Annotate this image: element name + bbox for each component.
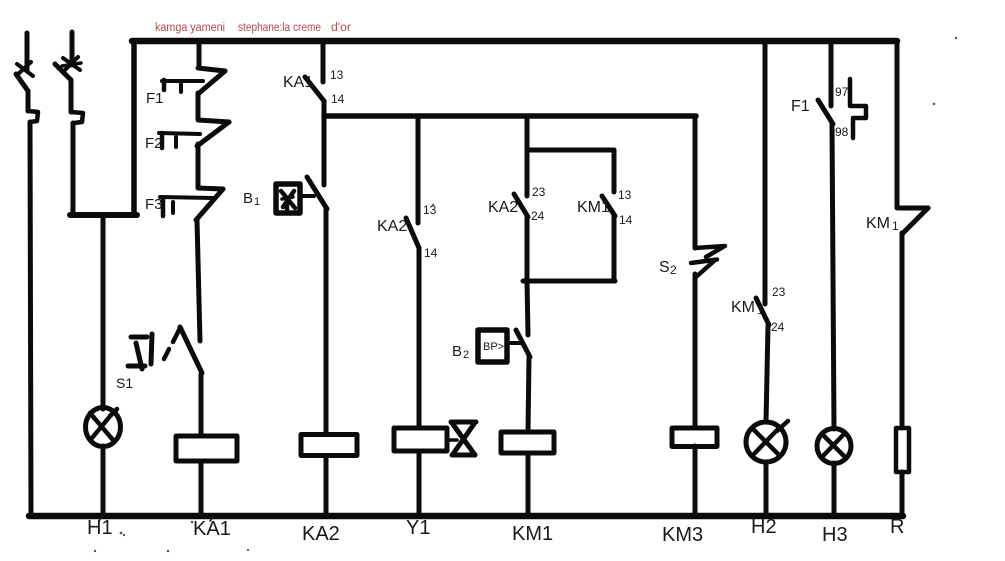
wire: sub-bus down to B1 — [322, 116, 327, 185]
wire: F-chain from top bus — [197, 41, 202, 68]
wire: S2 to coil KM3 — [693, 274, 698, 428]
coil KA2 — [301, 435, 357, 456]
svg-text:S1: S1 — [116, 375, 133, 391]
contact KA1 13/14 — [305, 44, 324, 101]
svg-text:KA1: KA1 — [193, 518, 231, 540]
wire: contact to lamp H2 — [766, 325, 768, 422]
switch S1 — [128, 327, 202, 373]
wire: bottom return bus — [29, 513, 903, 520]
pin 23 — [772, 285, 786, 299]
svg-text:KA2: KA2 — [488, 199, 518, 216]
svg-text:KA2: KA2 — [302, 523, 340, 545]
label KM1 (bottom) — [512, 523, 553, 545]
wire: sub-bus down to parallel pair — [525, 116, 530, 150]
coil KM3 — [672, 428, 717, 447]
label KA2 (bottom) — [302, 523, 340, 545]
wire: F3 down to S1 — [197, 220, 200, 341]
label KA2 — [488, 199, 518, 216]
svg-text:14: 14 — [331, 92, 345, 106]
svg-text:F1: F1 — [791, 98, 810, 115]
svg-text:23: 23 — [532, 185, 546, 199]
label H1 — [87, 516, 113, 539]
lamp H3 — [817, 429, 851, 464]
thermal element of F1 — [850, 79, 866, 138]
svg-text:B: B — [243, 190, 253, 207]
label B2 — [452, 343, 469, 361]
label H3 (bottom) — [822, 524, 848, 546]
svg-text:stephane:la creme: stephane:la creme — [238, 22, 321, 34]
label KM3 (bottom) — [662, 524, 703, 546]
label S1 — [116, 375, 133, 391]
breaker contact F3 — [160, 188, 223, 220]
pin 23 — [532, 185, 546, 199]
svg-text:KM1: KM1 — [512, 523, 553, 545]
svg-text:H3: H3 — [822, 524, 848, 546]
svg-text:KA2: KA2 — [377, 218, 407, 235]
svg-text:F3: F3 — [145, 196, 163, 213]
wire: lamp H3 to bottom bus — [832, 463, 837, 516]
wire: top supply bus — [132, 38, 897, 45]
disconnect switch Q1 pole a — [16, 33, 38, 122]
wire: top bus right elbow down — [895, 41, 900, 208]
pin 98 — [835, 125, 849, 139]
wire — [525, 217, 530, 281]
contact KM1 (right) — [899, 208, 928, 233]
wire: parallel pair bottom bar — [523, 279, 615, 284]
svg-text:d'or: d'or — [331, 22, 351, 34]
svg-text:R: R — [890, 516, 904, 538]
wire: riser to top bus — [131, 41, 137, 215]
pin 14 — [424, 246, 438, 260]
switch S2 — [691, 246, 725, 277]
wire: coil KA2 to bottom bus — [324, 457, 329, 516]
svg-text:2: 2 — [463, 349, 469, 361]
label F1 — [791, 98, 810, 115]
breaker contact F1 — [162, 68, 225, 94]
wire: coil KM3 to bottom bus — [693, 446, 698, 516]
label KM1 — [577, 199, 610, 216]
resistor R — [896, 428, 909, 472]
wire: top bus down to KM1 23/24 — [763, 44, 768, 304]
wire: control sub-bus — [324, 113, 696, 119]
svg-text:1: 1 — [892, 219, 899, 233]
lamp H1 — [86, 408, 121, 447]
label KA1 — [283, 74, 313, 91]
wire: S1 to coil KA1 — [199, 374, 204, 436]
svg-text:Y1: Y1 — [406, 517, 430, 539]
pushbutton B2 — [478, 330, 530, 362]
svg-text:S: S — [659, 259, 670, 276]
label F3 — [145, 196, 163, 213]
svg-text:KM1: KM1 — [577, 199, 610, 216]
svg-text:KM: KM — [866, 215, 890, 232]
coil KA1 — [176, 436, 237, 461]
svg-text:98: 98 — [835, 125, 849, 139]
label BP> — [483, 341, 504, 353]
svg-text:97: 97 — [835, 85, 849, 99]
wire: F1 to lamp H3 — [832, 124, 834, 429]
contact F1 97/98 — [818, 100, 833, 124]
svg-text:14: 14 — [619, 213, 633, 227]
wire: KA1 contact to sub-bus — [322, 101, 327, 116]
wire — [196, 93, 201, 119]
pin 24 — [771, 320, 785, 334]
wire: right pole down to node — [71, 123, 76, 215]
stray pen dots — [94, 37, 957, 552]
valve symbol of Y1 — [447, 422, 476, 455]
label B1 — [243, 190, 260, 208]
wire: lamp H2 to bottom bus — [764, 462, 769, 516]
wire: contact to resistor R — [900, 233, 905, 428]
contact KA2 23/24 — [514, 150, 528, 217]
wire: H1 branch drop — [101, 215, 106, 409]
svg-text:F2: F2 — [145, 135, 163, 152]
pin 13 — [423, 203, 437, 217]
label R (bottom) — [890, 516, 904, 538]
label KA1 (bottom) — [193, 516, 231, 540]
wire: B1 to coil KA2 — [324, 209, 329, 434]
pin 13 — [330, 68, 344, 82]
disconnect switch Q1 pole b — [55, 32, 83, 123]
wire: B2 to coil KM1 — [528, 357, 529, 432]
contact KM1 13/14 — [602, 150, 615, 216]
wire: down to B2 — [527, 281, 528, 335]
svg-text:2: 2 — [670, 263, 677, 277]
label F1 — [146, 90, 164, 107]
label Y1 (bottom) — [406, 517, 430, 539]
wire: resistor to bottom bus — [900, 472, 905, 516]
svg-text:B: B — [452, 343, 462, 360]
label KM1 — [866, 215, 899, 233]
label H2 (bottom) — [751, 516, 777, 538]
svg-text:F1: F1 — [146, 90, 164, 107]
pushbutton B1 — [276, 177, 327, 213]
wire: coil Y1 to bottom bus — [417, 451, 422, 516]
pin 97 — [835, 85, 849, 99]
pin 14 — [619, 213, 633, 227]
svg-text:23: 23 — [772, 285, 786, 299]
label S2 — [659, 259, 677, 277]
wire: left pole down to bottom bus — [30, 122, 31, 516]
pin 13 — [618, 188, 632, 202]
svg-text:KA1: KA1 — [283, 74, 313, 91]
coil KM1 — [501, 432, 554, 453]
wire: coil KA1 to bottom bus — [199, 461, 204, 516]
wire: H1 to bottom bus — [101, 446, 106, 516]
label F2 — [145, 135, 163, 152]
svg-text:KM3: KM3 — [662, 524, 703, 546]
pin 24 — [531, 209, 545, 223]
wire: coil KM1 to bottom bus — [526, 453, 531, 516]
svg-text:1: 1 — [757, 303, 764, 317]
wire — [196, 144, 201, 187]
svg-text:BP>: BP> — [483, 341, 504, 353]
svg-text:13: 13 — [330, 68, 344, 82]
wire: horizontal link to top bus elbow — [70, 212, 137, 218]
svg-text:14: 14 — [424, 246, 438, 260]
pin 14 — [331, 92, 345, 106]
lamp H2 — [746, 421, 788, 462]
breaker contact F2 — [159, 120, 229, 148]
svg-text:24: 24 — [531, 209, 545, 223]
svg-text:24: 24 — [771, 320, 785, 334]
contact KM1 23/24 — [756, 298, 769, 325]
label KM1 — [731, 299, 764, 317]
title text (red) — [155, 22, 351, 34]
svg-text:KM: KM — [731, 299, 755, 316]
wire: parallel pair top bar — [527, 148, 614, 153]
wire: KA2 contact to coil Y1 — [417, 248, 422, 428]
svg-text:1: 1 — [254, 196, 260, 208]
wire: top bus down to F1 97/98 — [829, 44, 834, 106]
svg-text:13: 13 — [423, 203, 437, 217]
label KA2 — [377, 218, 407, 235]
wire — [612, 216, 617, 281]
svg-text:H2: H2 — [751, 516, 777, 538]
wire: sub-bus elbow down to S2 — [693, 116, 698, 248]
svg-text:kamga yameni: kamga yameni — [155, 22, 225, 34]
svg-text:13: 13 — [618, 188, 632, 202]
coil Y1 — [394, 428, 447, 451]
contact KA2 13/14 — [406, 116, 419, 248]
